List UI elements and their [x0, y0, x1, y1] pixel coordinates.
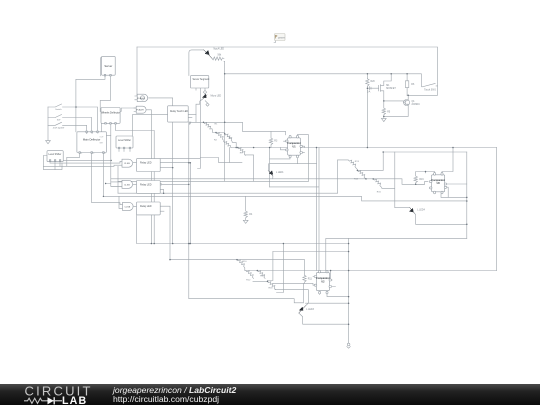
- svg-text:L LED4: L LED4: [417, 209, 425, 211]
- wire server pin1 down-left: [76, 75, 105, 132]
- wire server top stub: [101, 57, 103, 76]
- svg-text:power: power: [278, 36, 285, 39]
- gate CLSB3: [123, 202, 134, 210]
- resistor Rc cascade C3: [268, 281, 276, 289]
- svg-text:R4: R4: [249, 214, 253, 216]
- svg-text:CLSB: CLSB: [124, 184, 130, 186]
- diode NpcA LED: [204, 50, 212, 59]
- svg-text:R10: R10: [243, 261, 248, 263]
- ground under R5: [381, 116, 386, 121]
- box Relay LED 2: [137, 181, 161, 194]
- wire nest y160.4: [60, 160, 111, 166]
- wire bus y270.5: [245, 270, 497, 272]
- wire gate2 input feed: [106, 182, 122, 186]
- svg-text:R6: R6: [411, 84, 415, 86]
- wire relay1 pin1: [160, 163, 190, 244]
- box Server: [102, 56, 116, 75]
- diode Micro LED: [203, 94, 207, 99]
- resistor Ra cascade A3: [224, 141, 231, 147]
- resistor Rc cascade C1: [237, 260, 245, 271]
- svg-text:Level Shifter: Level Shifter: [118, 139, 131, 142]
- box Level Shifter R: [116, 136, 133, 148]
- wire x496.7 right bus: [496, 148, 498, 271]
- svg-text:Q1: Q1: [412, 101, 416, 103]
- svg-text:56k: 56k: [218, 54, 223, 56]
- MOSFET M1: [379, 74, 392, 101]
- wire box top y251.5: [273, 251, 349, 253]
- svg-text:R11: R11: [308, 278, 313, 280]
- wire relay1 top link: [160, 157, 200, 159]
- wire main bottom pin1 nest: [67, 153, 80, 167]
- wire level shifter L pins: [54, 162, 56, 169]
- note power stem: [274, 41, 276, 43]
- wire y281.4: [253, 280, 268, 282]
- wire rail y152 right: [383, 151, 467, 153]
- ground relay touch: [189, 122, 191, 124]
- terminal bottom: [347, 343, 350, 346]
- wire L LED1 links: [268, 164, 273, 179]
- resistor Ra cascade A4: [225, 134, 232, 142]
- svg-text:R2: R2: [214, 140, 218, 142]
- wire U1 bottom nets: [270, 157, 317, 164]
- wire relay2 pin2: [160, 189, 163, 193]
- gate CLSB2: [122, 180, 133, 188]
- wire x172.7 bus: [172, 122, 174, 243]
- resistor Rb cascade B2: [357, 170, 365, 179]
- svg-text:Relay LED: Relay LED: [140, 205, 152, 208]
- box Relay LED 1: [137, 159, 161, 172]
- wire main bottom pin2 long: [92, 153, 123, 205]
- resistor R16: [414, 172, 425, 185]
- wire IC3 left pin: [416, 183, 425, 185]
- resistor Ra cascade A1: [204, 122, 213, 130]
- wire relay3 left edge drop: [136, 215, 138, 244]
- box Main Deflector: [77, 132, 107, 153]
- wire y122.3: [189, 122, 286, 135]
- CircuitLab logo: [0, 384, 110, 405]
- wire x229.4 drop: [228, 148, 230, 163]
- svg-text:4CH dipSW: 4CH dipSW: [53, 128, 65, 130]
- svg-text:Wheels Deflector: Wheels Deflector: [101, 111, 120, 114]
- box Level Shifter L: [47, 151, 63, 162]
- wire U1 left pins: [281, 141, 287, 150]
- wire relay1 pin2: [160, 167, 173, 169]
- wire gate outputs to relay boxes: [133, 163, 136, 207]
- wire wheels bottom pin3: [116, 123, 155, 130]
- wire wheels left pin vert: [101, 123, 103, 132]
- box Relay LED 3: [137, 202, 161, 215]
- resistor R3: [269, 131, 272, 147]
- svg-text:R13: R13: [355, 161, 360, 163]
- wire x154.2 bus: [153, 131, 155, 244]
- svg-text:Relay LED: Relay LED: [140, 162, 152, 165]
- wire relay2 pin1: [162, 183, 189, 185]
- svg-text:R1: R1: [215, 123, 219, 125]
- svg-text:NpcA LED: NpcA LED: [214, 47, 225, 50]
- ground left: [46, 141, 51, 144]
- resistor Ra cascade A5: [238, 148, 245, 156]
- wire level shifter R bottom pins: [119, 148, 130, 152]
- svg-text:Relay Touch LED: Relay Touch LED: [170, 111, 188, 113]
- wire bus y181.35: [118, 180, 308, 182]
- wire A3 end to rail: [230, 147, 232, 149]
- wire x316.5 riser: [316, 148, 318, 271]
- svg-text:R12: R12: [246, 279, 251, 281]
- wire LED4 out: [415, 213, 467, 224]
- switch SW1 row: [48, 104, 98, 132]
- svg-text:Level Shifter: Level Shifter: [49, 153, 62, 156]
- svg-text:CLSB: CLSB: [124, 163, 130, 165]
- wire IC2 top feed: [326, 238, 467, 271]
- wire main bottom pin3: [102, 153, 104, 197]
- wire bus x224.7: [224, 62, 226, 182]
- wire top rail VDD loop: [137, 47, 438, 95]
- gate FLASH2: [136, 106, 146, 113]
- diode L LED1: [268, 171, 273, 177]
- svg-text:Relay LED: Relay LED: [140, 184, 152, 187]
- wire x466.8: [466, 152, 468, 238]
- op-amp U2 comparator body: [316, 273, 329, 291]
- wire left drop from top rail to gate FLASH1 input: [136, 47, 138, 96]
- resistor Rc cascade C2b: [257, 271, 265, 279]
- wire gate3 input2: [119, 196, 123, 208]
- wire step to LED3: [189, 299, 303, 303]
- LED NpcA chain: [189, 50, 204, 76]
- box Relay Touch LED: [168, 106, 189, 122]
- wire second rail: [225, 73, 422, 75]
- wire x337.6 drop: [337, 160, 339, 193]
- resistor R6 top right (rect style): [405, 74, 408, 96]
- resistor Rc cascade C2: [246, 271, 254, 279]
- wire server pin2 to wheels box: [100, 75, 110, 111]
- switch SW3 row: [48, 122, 87, 132]
- svg-text:R16: R16: [419, 179, 424, 181]
- wire bus x367.4 with resistor R20 gap: [366, 74, 368, 148]
- wire emitter return: [384, 105, 408, 116]
- resistor R20 zigzag: [366, 79, 369, 86]
- svg-text:MOSFET: MOSFET: [386, 88, 396, 90]
- svg-text:Server: Server: [104, 64, 112, 68]
- svg-text:M1: M1: [386, 85, 390, 87]
- wire x200.3 long riser: [198, 88, 201, 169]
- svg-text:SW: SW: [57, 120, 61, 122]
- footer bar: [0, 384, 540, 405]
- svg-text:R3: R3: [274, 141, 278, 143]
- wire IC2 left pin1: [313, 276, 315, 278]
- wire gate FLASH1 out to relay touch box: [149, 98, 173, 106]
- svg-text:Touch SW1: Touch SW1: [424, 90, 437, 92]
- wire A4 down to rail: [232, 143, 236, 148]
- wire x283.4 riser: [277, 244, 284, 293]
- wire step y157.5: [200, 158, 242, 163]
- wire x151.4 bus from gate FLASH2 out: [146, 110, 151, 244]
- svg-text:CLSB: CLSB: [124, 206, 130, 208]
- node junction dots: [224, 73, 226, 75]
- wire server segment bottom stub: [195, 88, 197, 90]
- wire y186.9: [270, 148, 319, 272]
- wire comparator U1 top right pin: [297, 135, 308, 182]
- wire nest y166.3: [43, 165, 122, 166]
- svg-text:0 A: 0 A: [367, 91, 371, 94]
- footer text: [113, 386, 236, 404]
- wire A5 out: [245, 155, 253, 181]
- wire relay touch right pins: [188, 115, 196, 123]
- wire IC2 right feeds: [331, 271, 336, 287]
- wire bus y178.85: [111, 179, 428, 184]
- wire y283.4: [273, 283, 315, 285]
- box Server Segment: [191, 76, 209, 88]
- svg-text:R15: R15: [377, 192, 382, 194]
- svg-text:LAB: LAB: [62, 395, 87, 405]
- op-amp U3 comparator body: [432, 175, 445, 192]
- wire bus y243.5: [137, 243, 349, 245]
- wire relay3 pin2: [160, 210, 164, 212]
- switch SW2 row: [48, 115, 92, 132]
- wire micro LED down: [196, 99, 203, 115]
- transistor Q1 NPN: [404, 100, 410, 106]
- svg-text:R5: R5: [387, 112, 391, 114]
- svg-text:R20: R20: [371, 81, 376, 83]
- wire x348.6 bus: [348, 238, 350, 343]
- wire gate tap with ammeter ticks: [367, 87, 378, 90]
- wire LED3 links: [299, 303, 349, 324]
- svg-text:FLASH: FLASH: [136, 109, 143, 112]
- wire main right pin jog: [106, 135, 110, 137]
- wire bus y193.2: [118, 192, 338, 194]
- svg-text:L LED1: L LED1: [276, 172, 284, 174]
- svg-text:Main Deflector: Main Deflector: [83, 138, 100, 142]
- svg-text:Micro LED: Micro LED: [211, 95, 222, 98]
- switch SW touch top right: [421, 74, 437, 87]
- svg-text:FLASH: FLASH: [137, 97, 144, 100]
- wire A1 to y132.5: [213, 131, 225, 132]
- wire gate FLASH2 input from wheels right pin: [120, 108, 136, 112]
- wire left bus to ground: [47, 107, 49, 141]
- wire nest y169.6: [43, 156, 62, 170]
- diode L LED3: [299, 306, 306, 314]
- wire relay3 pin1: [160, 206, 170, 259]
- wire mid rail y147.5: [232, 147, 497, 149]
- wire wheels bottom pin2: [111, 123, 122, 186]
- svg-text:Server Segment: Server Segment: [193, 78, 210, 81]
- wire x118 riser: [117, 166, 119, 193]
- resistor R4 mid with ground: [243, 196, 248, 223]
- wire level shifter2 top feed: [132, 115, 167, 136]
- wire y259.6 R11 feed: [170, 260, 305, 276]
- svg-text:R18: R18: [269, 288, 274, 290]
- gate CLSB1: [122, 159, 133, 167]
- resistor R21 zigzag horizontal: [212, 57, 224, 60]
- wire IC3 right nets: [441, 184, 467, 197]
- resistor R5: [382, 101, 385, 117]
- op-amp U1 comparator body: [288, 138, 301, 155]
- svg-text:L LED3: L LED3: [306, 309, 314, 311]
- wire y207.7 LED4: [395, 207, 410, 209]
- svg-text:R9: R9: [240, 152, 244, 154]
- wire y289.7: [275, 290, 309, 304]
- resistor R11: [303, 275, 306, 283]
- wire B3 out: [382, 152, 395, 208]
- svg-text:P1: P1: [80, 153, 82, 155]
- resistor Rb cascade B1: [338, 160, 358, 170]
- wire U1 right pins: [302, 146, 305, 152]
- wire x303.3: [302, 283, 304, 302]
- svg-text:2N3904: 2N3904: [412, 104, 421, 106]
- wire R21 to bus: [223, 61, 226, 63]
- resistor Rb cascade B3: [373, 179, 382, 188]
- wire x272.9 drop: [268, 252, 273, 282]
- wire IC2 bottom pins: [320, 292, 349, 296]
- svg-text:Switch: Switch: [55, 108, 62, 111]
- wire y303: [306, 302, 349, 304]
- node diamond above micro LED: [203, 88, 206, 95]
- note power: [275, 34, 286, 41]
- resistor Ra cascade A2: [216, 133, 223, 141]
- wire IC3 top feed: [426, 148, 454, 174]
- box Wheels Deflector: [101, 108, 120, 124]
- wire bus y196.4: [103, 196, 466, 201]
- wire x269.6: [269, 148, 271, 187]
- wire nest y163.1: [50, 161, 122, 163]
- diode L LED4: [410, 208, 415, 214]
- svg-text:P2: P2: [92, 153, 94, 155]
- gate FLASH1: [137, 94, 148, 101]
- wire BJT base line: [384, 101, 404, 103]
- svg-text:P3: P3: [103, 153, 105, 155]
- wire x188.8 bus: [188, 122, 190, 298]
- wire B junction y170.4: [357, 152, 383, 170]
